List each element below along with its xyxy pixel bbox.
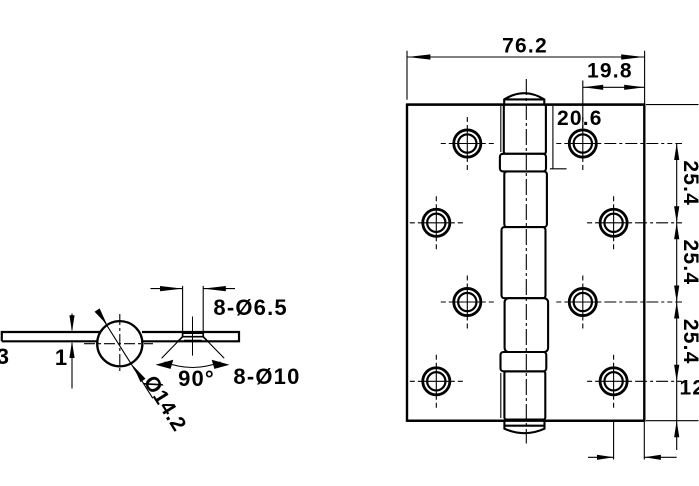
arrow down at row2	[674, 206, 679, 223]
knuckle K5	[504, 371, 545, 419]
knuckle K4	[505, 298, 548, 352]
hole row4 right	[587, 355, 682, 408]
knuckle circle	[97, 321, 142, 366]
pin cap top	[504, 93, 544, 104]
arrow up outside bottom edge	[674, 421, 679, 438]
knuckle K1	[504, 105, 546, 154]
arrow lower of dia 14.2	[133, 366, 146, 383]
hole row3 left	[441, 276, 494, 329]
svg-text:25.4: 25.4	[679, 319, 699, 365]
bottom dim line	[588, 456, 677, 458]
plate rectangle	[407, 105, 644, 421]
hole row2 left	[410, 196, 463, 249]
leaf inner edge thin lines	[500, 106, 502, 418]
dim 76.2 line	[407, 56, 645, 58]
arrow 76.2 right	[621, 54, 644, 59]
arrow left tip at 204	[203, 286, 226, 291]
arrow up at row3	[674, 302, 679, 319]
arrow down tip bar top	[69, 315, 74, 332]
leader diameter line	[98, 311, 153, 399]
arrow up tip bar bottom	[69, 341, 74, 358]
arrow down at row4	[674, 365, 679, 382]
knuckle K2	[504, 171, 547, 227]
bottom edge extension right	[646, 420, 699, 422]
arc arrow right	[212, 360, 230, 369]
arrow 19.8 left	[583, 85, 603, 90]
hole row1 right	[556, 117, 682, 170]
arc arrow left	[156, 360, 174, 369]
svg-text:90°: 90°	[178, 366, 215, 391]
pin centerline	[525, 79, 527, 444]
arrow right tip 613.6	[597, 455, 614, 460]
svg-text:25.4: 25.4	[679, 160, 699, 206]
svg-text:12.7: 12.7	[680, 377, 699, 400]
bearing ring R2	[501, 352, 547, 371]
plate top edge redraw	[407, 103, 644, 105]
dimension 8-dia6.5 extension lines	[183, 286, 204, 331]
dimension 1 line upper	[71, 314, 73, 331]
pin cap bottom	[504, 421, 544, 434]
svg-text:1: 1	[55, 345, 67, 370]
svg-text:76.2: 76.2	[502, 34, 548, 57]
right chain dim line	[676, 144, 678, 451]
arrow down at row3	[674, 286, 679, 303]
dim 20.6 leader L	[550, 106, 567, 169]
dimension 1 line lower	[71, 343, 73, 389]
wire right leaf bar	[142, 332, 239, 341]
hole row4 left	[410, 355, 463, 408]
centerline vertical	[119, 314, 121, 372]
dim 19.8 extension line	[582, 81, 584, 129]
hole row3 right	[556, 276, 682, 329]
dimension 8-dia6.5 line	[151, 288, 236, 290]
hole row2 right	[587, 196, 682, 249]
svg-text:8-Ø10: 8-Ø10	[233, 364, 300, 389]
countersunk hole section	[178, 332, 207, 341]
svg-text:19.8: 19.8	[587, 59, 633, 82]
centerline horizontal	[84, 343, 153, 345]
arrow 76.2 left	[408, 54, 431, 59]
wire left leaf bar	[2, 332, 101, 341]
angle arc	[165, 362, 221, 368]
arrow 19.8 right	[624, 85, 644, 90]
top edge extension right	[646, 104, 699, 106]
dim 19.8 line	[583, 86, 645, 88]
countersink angle extension lines	[162, 337, 225, 359]
arrow left tip 644.3	[644, 455, 661, 460]
arrow up at row2	[674, 223, 679, 240]
bearing ring R1	[500, 154, 546, 172]
hole row1 left	[441, 117, 494, 170]
svg-text:25.4: 25.4	[679, 240, 699, 286]
plate bottom edge redraw	[407, 420, 644, 422]
arrow up at row1	[674, 144, 679, 161]
arrow right tip at 182	[160, 286, 183, 291]
svg-text:3: 3	[0, 344, 9, 369]
bottom dim extension lines	[614, 422, 645, 460]
dim 76.2 extension lines	[407, 51, 645, 105]
hole centerline	[192, 317, 194, 356]
svg-text:20.6: 20.6	[557, 107, 603, 130]
svg-text:8-Ø6.5: 8-Ø6.5	[213, 295, 287, 320]
knuckle K3	[502, 227, 546, 298]
arrow upper of dia 14.2	[95, 308, 108, 325]
